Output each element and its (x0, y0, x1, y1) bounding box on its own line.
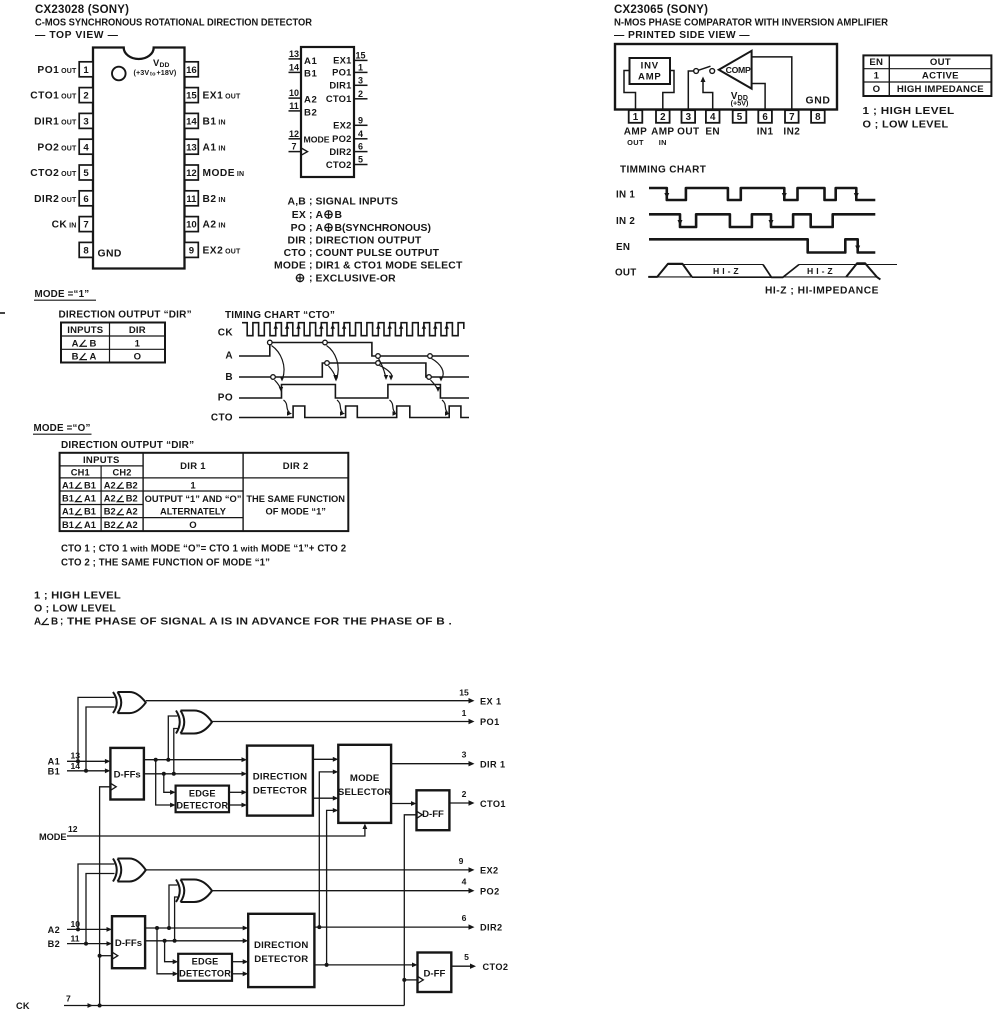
U2 pin 6 (758, 110, 772, 123)
pin 8 (GND) (79, 242, 93, 257)
wire U8 Q2 to direction detector2 (145, 940, 245, 942)
svg-text:11: 11 (186, 194, 197, 205)
svg-text:O ; LOW LEVEL: O ; LOW LEVEL (863, 120, 949, 131)
junction dot Q1 tap to edge detector2 (155, 926, 159, 930)
symbol right pin 5 CTO2 stub (354, 164, 368, 166)
symbol right pin 15 EX1 stub (354, 59, 368, 61)
svg-text:11: 11 (71, 933, 80, 943)
wire U9 output1 to direction detector2 (232, 961, 245, 963)
wire CK trunk (64, 1005, 404, 1007)
svg-text:4: 4 (358, 129, 363, 139)
svg-text:CTO2: CTO2 (326, 159, 352, 170)
svg-text:;: ; (309, 260, 312, 271)
pin 1 (PO1 OUT) (79, 62, 93, 77)
IC U2 CX23065 package outline (615, 44, 837, 110)
svg-text:A1: A1 (62, 507, 74, 517)
svg-text:D-FFs: D-FFs (114, 770, 141, 781)
wire A1 to G1 upper input (78, 697, 115, 761)
svg-text:1: 1 (83, 65, 89, 76)
svg-text:14: 14 (186, 117, 197, 128)
IN2 falling edge arrows (678, 220, 683, 226)
svg-text:2: 2 (660, 112, 666, 123)
svg-text:B: B (90, 338, 97, 349)
svg-text:2: 2 (83, 91, 88, 102)
svg-text:7: 7 (291, 142, 296, 152)
svg-text:A2: A2 (104, 494, 116, 504)
symbol right pin 9 EX2 stub (354, 124, 368, 126)
wire CTO2 feedback to mode selector input4 (327, 810, 335, 965)
sample point circles on A (268, 340, 273, 345)
svg-text:7: 7 (83, 220, 88, 231)
U2 pin 8 (811, 110, 825, 123)
direction detector U5 channel1 (247, 746, 313, 816)
wire U6 DIR1 output to pin 3 (391, 763, 471, 765)
svg-text:14: 14 (289, 62, 299, 72)
wire B1 to G1 lower input (86, 707, 115, 771)
junction dot B1 tap (84, 769, 88, 773)
svg-text:10: 10 (71, 919, 81, 929)
wire U8 Q1 to direction detector2 (145, 927, 245, 929)
svg-text:CK: CK (16, 1001, 30, 1011)
svg-text:DIR: DIR (288, 236, 307, 247)
wire A2 to G3 upper input (78, 864, 115, 929)
svg-text:CTO: CTO (211, 413, 233, 424)
svg-text:O: O (189, 520, 196, 531)
pin 13 (A1 IN) (185, 139, 199, 154)
svg-text:8: 8 (815, 112, 821, 123)
wire Q1 to G2 upper input (168, 716, 177, 760)
svg-text:EX 1: EX 1 (480, 696, 502, 706)
symbol left pin 12 stub (289, 138, 302, 140)
svg-text:2: 2 (462, 789, 467, 799)
svg-text:5: 5 (358, 155, 363, 165)
XOR gate G4 (PO2) (176, 880, 180, 903)
svg-text:INPUTS: INPUTS (67, 325, 103, 336)
arrow PO to CTO pulse 2 (337, 400, 343, 413)
svg-text:OUT: OUT (615, 268, 637, 279)
svg-text:PO1: PO1 (480, 717, 500, 727)
svg-text:1 ; HIGH LEVEL: 1 ; HIGH LEVEL (34, 591, 121, 602)
pin 16 (Vdd) (185, 62, 199, 77)
wire Q2 to G2 lower input (174, 729, 178, 774)
svg-text:HIGH IMPEDANCE: HIGH IMPEDANCE (897, 84, 984, 95)
pin 2 (CTO1 OUT) (79, 88, 93, 103)
svg-text:13: 13 (289, 49, 299, 59)
svg-text:DIRECTION OUTPUT “DIR”: DIRECTION OUTPUT “DIR” (61, 440, 194, 451)
svg-text:HI-Z ; HI-IMPEDANCE: HI-Z ; HI-IMPEDANCE (765, 286, 879, 297)
junction dot Q1 tap to G4 (167, 926, 171, 930)
svg-text:7: 7 (66, 994, 71, 1004)
svg-text:6: 6 (358, 142, 363, 152)
svg-text:GND: GND (98, 249, 122, 260)
svg-text:6: 6 (462, 913, 467, 923)
waveform CK clock (242, 323, 464, 336)
svg-text:DIR1: DIR1 (329, 80, 351, 91)
svg-text:1: 1 (358, 62, 363, 72)
svg-text:CH2: CH2 (112, 467, 131, 477)
svg-text:DIR2: DIR2 (480, 923, 503, 933)
svg-text:to: to (150, 71, 156, 77)
flip-flop U7 D-FF CTO1 (417, 790, 450, 830)
svg-text:(+5V): (+5V) (731, 99, 749, 108)
svg-text:9: 9 (459, 856, 464, 866)
wire pin3 OUT to switch (688, 71, 693, 110)
svg-text:AMP: AMP (638, 72, 662, 83)
svg-text:OUTPUT “1” AND “O”: OUTPUT “1” AND “O” (145, 494, 242, 504)
svg-text:SIGNAL INPUTS: SIGNAL INPUTS (316, 197, 399, 208)
svg-text:EN: EN (869, 57, 883, 68)
svg-text:A: A (34, 617, 41, 628)
svg-text:3: 3 (462, 750, 467, 760)
svg-text:O: O (134, 352, 141, 363)
svg-text:5: 5 (464, 952, 469, 962)
svg-text:A: A (72, 338, 79, 349)
svg-text:EXCLUSIVE-OR: EXCLUSIVE-OR (316, 274, 397, 285)
svg-text:A: A (225, 351, 233, 362)
waveform OUT hi-z1 bottom flat (692, 276, 771, 278)
svg-text:A1: A1 (48, 757, 60, 767)
svg-text:5: 5 (83, 168, 89, 179)
svg-text:15: 15 (459, 688, 469, 698)
junction dot Q1 tap to G2 (166, 758, 170, 762)
pin 9 (EX2 OUT) (185, 242, 199, 257)
U2 pin 1 (629, 110, 643, 123)
svg-text:THE SAME FUNCTION: THE SAME FUNCTION (246, 494, 345, 504)
junction dot B2 tap (84, 942, 88, 946)
wire Q1 to G4 upper input (169, 885, 178, 928)
svg-text:13: 13 (71, 751, 81, 761)
table T2 direction output DIR modeO (60, 453, 349, 531)
svg-text:B2: B2 (126, 494, 138, 504)
waveform PO (239, 385, 469, 399)
svg-text:12: 12 (289, 129, 299, 139)
wire U4 output1 to direction detector (229, 791, 244, 793)
svg-text:EX2: EX2 (480, 866, 499, 876)
svg-text:C-MOS SYNCHRONOUS ROTATIONAL D: C-MOS SYNCHRONOUS ROTATIONAL DIRECTION D… (35, 18, 313, 29)
svg-text:D-FF: D-FF (422, 809, 444, 820)
svg-text:TIMING CHART “CTO”: TIMING CHART “CTO” (225, 310, 335, 321)
svg-text:+18V): +18V) (157, 68, 177, 77)
waveform IN2 (649, 214, 875, 227)
arrow B sample to PO rise 1 (275, 380, 281, 390)
symbol left pin 10 stub (289, 97, 302, 99)
U2 pin 7 (785, 110, 799, 123)
svg-text:8: 8 (83, 246, 89, 257)
svg-text:EX2: EX2 (333, 120, 351, 131)
wire MODE to mode selector bottom (67, 827, 365, 837)
wire CK branch to U8 clock (100, 955, 112, 957)
junction dot CK to U8 clock (98, 954, 102, 958)
comparator U2a COMP triangle (719, 51, 752, 89)
svg-text:ACTIVE: ACTIVE (922, 71, 959, 82)
svg-text:IN 2: IN 2 (616, 216, 635, 227)
waveform CTO (239, 406, 469, 418)
svg-text:1: 1 (190, 480, 196, 491)
svg-text:7: 7 (789, 112, 795, 123)
svg-text:4: 4 (710, 112, 716, 123)
wire U7 CTO1 output to pin 2 (449, 802, 471, 804)
junction dot CK left riser (98, 1004, 102, 1008)
svg-text:(+3V: (+3V (134, 68, 150, 77)
wire U6 output to U7 (391, 803, 413, 805)
arrow A sample to PO rise 1 (272, 346, 285, 380)
edge detector U4 channel1 (176, 786, 229, 813)
svg-text:EX1: EX1 (333, 55, 351, 66)
svg-text:TIMMING CHART: TIMMING CHART (620, 165, 706, 176)
svg-text:PO2: PO2 (332, 133, 351, 144)
svg-text:1: 1 (135, 338, 141, 349)
flip-flop U3 D-FFs channel1 (110, 748, 143, 800)
waveform IN1 (649, 188, 875, 200)
legend xor symbol (296, 274, 303, 281)
wire CK branch to U11 clock (404, 979, 417, 981)
symbol clock wedge pin 7 (301, 148, 308, 155)
wire PO2 output to pin 4 (212, 890, 472, 892)
flip-flop U11 D-FF CTO2 (418, 953, 452, 993)
waveform EN (649, 239, 875, 252)
svg-text:SELECTOR: SELECTOR (338, 787, 392, 798)
svg-text:1: 1 (462, 708, 467, 718)
svg-text:CTO 2 ; THE SAME FUNCTION: CTO 2 ; THE SAME FUNCTION OF MODE “1” (61, 558, 270, 569)
waveform OUT active pulse 2 (846, 263, 880, 279)
svg-text:CTO 1 ; CTO 1 with MODE “O”=: CTO 1 ; CTO 1 with MODE “O”= CTO 1 with … (61, 544, 346, 555)
svg-text:CTO1: CTO1 (326, 93, 352, 104)
svg-text:B1: B1 (304, 68, 318, 79)
svg-text:13: 13 (186, 142, 197, 153)
svg-text:CTO: CTO (284, 248, 306, 259)
wire pin4 EN control to switch (703, 80, 713, 110)
wire Q2 to edge detector upper input (164, 774, 172, 793)
svg-text:;: ; (309, 223, 312, 234)
svg-text:INV: INV (641, 61, 659, 72)
symbol left pin 7 stub (289, 151, 302, 153)
U8 clock wedge (112, 952, 118, 959)
svg-text:1: 1 (874, 71, 880, 82)
svg-text:B1: B1 (48, 766, 60, 776)
svg-text:THE PHASE OF SIGNAL A IS: THE PHASE OF SIGNAL A IS IN ADVANCE FOR … (67, 617, 452, 628)
wire comparator input IN2 from pin7 (752, 57, 792, 110)
svg-text:AMP: AMP (651, 127, 674, 138)
stray left margin mark (0, 312, 5, 314)
svg-text:B2: B2 (104, 507, 116, 517)
wire Q1 to edge detector2 lower input (157, 928, 175, 974)
svg-text:9: 9 (358, 115, 363, 125)
pin 11 (B2 IN) (185, 191, 199, 206)
svg-text:IN 1: IN 1 (616, 190, 635, 201)
svg-text:CX23065 (SONY): CX23065 (SONY) (614, 4, 708, 16)
pin 3 (DIR1 OUT) (79, 113, 93, 128)
svg-text:B: B (335, 210, 343, 221)
svg-text:B(SYNCHRONOUS): B(SYNCHRONOUS) (335, 223, 431, 234)
waveform OUT envelope dip (763, 265, 799, 278)
svg-text:DIRECTION: DIRECTION (253, 772, 308, 783)
svg-text:DIR 2: DIR 2 (283, 461, 309, 472)
svg-text:CK: CK (218, 328, 234, 339)
junction dot A1 tap (76, 759, 80, 763)
symbol right pin 6 DIR2 stub (354, 151, 368, 153)
symbol left pin 11 stub (289, 110, 302, 112)
symbol right pin 4 PO2 stub (354, 138, 368, 140)
svg-text:PO2: PO2 (480, 886, 500, 896)
wire U3 Q1 to direction detector (144, 759, 244, 761)
inverter amplifier block INV AMP (630, 58, 671, 84)
junction dot CTO2 feedback (325, 963, 329, 967)
svg-text:DIR2: DIR2 (329, 146, 351, 157)
pin 10 (A2 IN) (185, 217, 199, 232)
junction dot Q2 tap to G4 (173, 939, 177, 943)
svg-text:CX23028 (SONY): CX23028 (SONY) (35, 4, 129, 16)
pin 14 (B1 IN) (185, 113, 199, 128)
wire U5 output2 to mode selector (313, 797, 335, 799)
EN falling edge arrow (855, 246, 860, 252)
wire U5 output1 to mode selector (313, 758, 335, 760)
svg-text:1: 1 (633, 112, 639, 123)
wire U3 Q2 to direction detector (144, 773, 244, 775)
svg-text:O ; LOW LEVEL: O ; LOW LEVEL (34, 604, 116, 615)
svg-text:;: ; (309, 235, 312, 246)
svg-text:A2: A2 (126, 520, 138, 530)
U2 pin 2 (656, 110, 670, 123)
XOR gate G2 (PO1) (176, 711, 180, 734)
svg-text:PO: PO (218, 393, 233, 404)
junction dot Q2 tap to edge detector (162, 772, 166, 776)
arrow PO to CTO pulse 3 (390, 400, 396, 413)
svg-text:COMP: COMP (726, 65, 751, 75)
svg-text:OUT: OUT (930, 57, 951, 68)
svg-text:3: 3 (358, 75, 363, 85)
switch SW1 lever (698, 66, 710, 70)
svg-text:OUT: OUT (627, 138, 644, 147)
svg-text:— TOP VIEW —: — TOP VIEW — (35, 30, 119, 41)
wire EX2 output to pin 9 (146, 869, 472, 871)
svg-text:6: 6 (762, 112, 768, 123)
svg-text:B: B (72, 352, 79, 363)
svg-text:DETECTOR: DETECTOR (254, 954, 308, 965)
svg-text:B2: B2 (304, 107, 317, 118)
svg-text:A2: A2 (104, 480, 116, 490)
svg-text:H I - Z: H I - Z (713, 266, 739, 276)
svg-text:A: A (316, 223, 324, 234)
XOR gate G1 (EX1) (113, 692, 117, 713)
svg-text:11: 11 (289, 101, 299, 111)
waveform A (239, 343, 469, 357)
IN1 falling edge arrows (664, 193, 669, 199)
svg-text:EDGE: EDGE (192, 957, 219, 967)
svg-text:D-FF: D-FF (423, 969, 445, 980)
svg-text:A: A (90, 352, 97, 363)
pin 4 (PO2 OUT) (79, 139, 93, 154)
wire EX1 output to pin 15 (146, 700, 472, 702)
svg-text:12: 12 (186, 168, 197, 179)
svg-text:INPUTS: INPUTS (83, 455, 120, 466)
svg-text:DIR 1: DIR 1 (180, 461, 206, 472)
svg-text:DETECTOR: DETECTOR (179, 969, 231, 979)
svg-text:3: 3 (686, 112, 692, 123)
wire B2 to G3 lower input (86, 874, 115, 944)
U2 pin 3 (682, 110, 696, 123)
svg-text:4: 4 (83, 142, 89, 153)
svg-text:IN: IN (659, 138, 667, 147)
svg-text:B2: B2 (104, 520, 116, 530)
svg-text:B1: B1 (62, 494, 74, 504)
wire DIR2 feedback to mode selector input2 (319, 772, 335, 927)
U11 clock wedge (418, 976, 424, 983)
logic symbol box U1b (301, 47, 354, 177)
table T1 direction output DIR mode1 (61, 323, 165, 363)
svg-text:B1: B1 (84, 480, 96, 490)
svg-text:IN2: IN2 (783, 127, 800, 138)
svg-text:CTO2: CTO2 (483, 962, 509, 972)
arrow A sample to PO rise 2 (379, 359, 386, 378)
wire U11 CTO2 output to pin 5 (451, 965, 473, 967)
svg-text:D-FFs: D-FFs (115, 938, 142, 949)
svg-text:A1: A1 (84, 494, 96, 504)
U7 clock wedge (417, 811, 423, 818)
svg-text:DIR1 & CTO1 MODE SELECT: DIR1 & CTO1 MODE SELECT (316, 261, 463, 272)
arrow B sample to PO fall 2 (431, 380, 438, 390)
svg-text:MODE =“O”: MODE =“O” (34, 423, 91, 434)
waveform B (239, 363, 469, 377)
junction dot Q1 tap to edge detector (154, 758, 158, 762)
XOR gate G3 (EX2) (113, 859, 117, 882)
svg-text:16: 16 (186, 65, 197, 76)
wire DIR2 output to pin 6 (314, 926, 471, 928)
symbol left pin 14 stub (289, 71, 302, 73)
U2 pin 4 (706, 110, 720, 123)
svg-text:ALTERNATELY: ALTERNATELY (160, 506, 227, 516)
svg-text:2: 2 (358, 89, 363, 99)
svg-text:COUNT PULSE OUTPUT: COUNT PULSE OUTPUT (316, 248, 440, 259)
wire Q1 to edge detector lower input (156, 760, 172, 805)
svg-text:B2: B2 (48, 939, 60, 949)
svg-text:B: B (225, 372, 233, 383)
wire pin2 to INV AMP output bracket (663, 71, 674, 111)
switch SW1 contact circles (694, 69, 699, 74)
wire Q2 to edge detector2 upper input (165, 941, 175, 962)
pin 12 (MODE IN) (185, 165, 199, 180)
table T3 EN OUT (863, 55, 991, 96)
svg-text:EN: EN (616, 242, 630, 253)
svg-text:PO1: PO1 (332, 67, 351, 78)
wire CK right riser to U7 clock (404, 815, 416, 1006)
svg-text:DIRECTION OUTPUT: DIRECTION OUTPUT (316, 236, 422, 247)
svg-text:DIR 1: DIR 1 (480, 759, 506, 769)
U2 pin 5 (733, 110, 747, 123)
svg-text:15: 15 (186, 91, 197, 102)
svg-text:DETECTOR: DETECTOR (253, 786, 307, 797)
pin 6 (DIR2 OUT) (79, 191, 93, 206)
junction dot Q2 tap to edge detector2 (163, 939, 167, 943)
wire CK riser to U3 clock (100, 787, 111, 1006)
direction detector U10 channel2 (248, 914, 314, 987)
svg-text:A2: A2 (304, 95, 317, 106)
arrow A sample to PO fall 2 (432, 359, 444, 380)
svg-text:MODE: MODE (304, 134, 330, 144)
svg-text:1 ; HIGH LEVEL: 1 ; HIGH LEVEL (863, 106, 955, 117)
svg-text:EDGE: EDGE (189, 788, 216, 798)
svg-text:DIRECTION: DIRECTION (254, 940, 309, 951)
junction dot CK to U11 clock (402, 978, 406, 982)
svg-text:A2: A2 (126, 507, 138, 517)
symbol right pin 3 DIR1 stub (354, 84, 368, 86)
pin 5 (CTO2 OUT) (79, 165, 93, 180)
waveform OUT active pulse 1 (649, 264, 692, 277)
svg-text:9: 9 (189, 246, 194, 257)
svg-text:MODE: MODE (274, 261, 306, 272)
svg-text:5: 5 (737, 112, 743, 123)
pin 15 (EX1 OUT) (185, 88, 199, 103)
svg-text:N-MOS PHASE COMPARATOR WITH IN: N-MOS PHASE COMPARATOR WITH INVERSION AM… (614, 18, 889, 29)
